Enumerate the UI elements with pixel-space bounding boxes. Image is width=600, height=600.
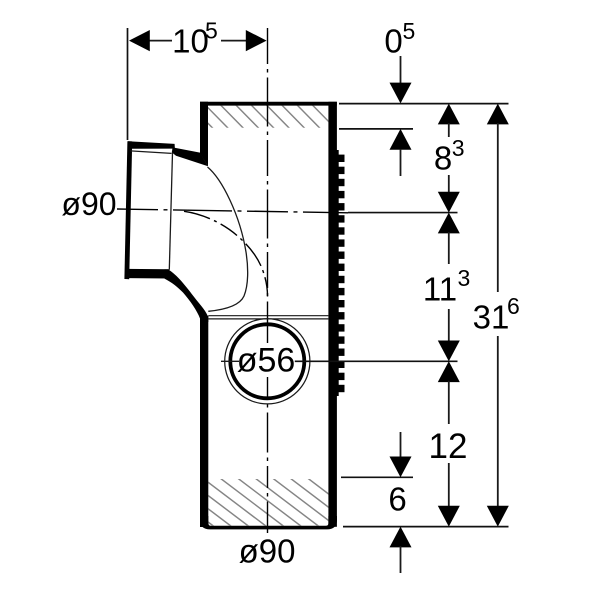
dim 11.3 upper shaft: [448, 232, 450, 264]
hatch top band: [190, 105, 335, 128]
dim 10.5 line right: [221, 40, 247, 42]
branch left cap: [124, 141, 132, 279]
pipe top edge: [200, 102, 337, 106]
dim 6 up arrow: [390, 527, 412, 548]
vertical centerline upper: [267, 28, 269, 343]
pipe right wall: [328, 102, 337, 527]
branch hub top edge: [128, 141, 175, 149]
pipe lower-left wall: [200, 316, 208, 527]
dim 12 down arrow: [438, 506, 460, 527]
dim 6 down arrow: [390, 457, 412, 478]
branch centerline bend arc: [184, 211, 268, 296]
svg-text:3: 3: [452, 135, 465, 161]
svg-text:ø56: ø56: [237, 342, 296, 380]
branch centerline: [117, 209, 348, 213]
circle center cross left arm: [221, 360, 239, 362]
branch bottom edge: [125, 269, 169, 279]
ribs on right wall: [339, 155, 345, 393]
dim 31.6 down arrow: [487, 506, 509, 527]
circle outer ring: [225, 319, 310, 404]
svg-text:ø90: ø90: [61, 186, 116, 222]
branch socket depth line: [169, 153, 172, 270]
dim 0.5 arrow down: [390, 83, 412, 104]
rib base strip: [337, 150, 339, 396]
svg-text:5: 5: [403, 18, 416, 44]
dim 11.3 up arrow: [438, 213, 460, 234]
svg-text:5: 5: [205, 18, 218, 44]
dim 0.5 shaft: [400, 56, 402, 85]
svg-text:6: 6: [507, 293, 520, 319]
extension line insertion top (y=128.9): [339, 128, 413, 130]
dim 12 lower shaft: [448, 463, 450, 508]
extension line left (x=127.5): [127, 28, 129, 140]
dim 10.5 arrow left: [129, 30, 150, 51]
branch inner top line: [130, 151, 171, 154]
extension branch centerline right: [348, 212, 458, 214]
circle d56: [230, 324, 304, 398]
extension line top (y=103.6): [339, 103, 509, 105]
small up arrow shaft: [400, 149, 402, 176]
svg-text:8: 8: [434, 140, 452, 177]
dim 11.3 down arrow: [438, 341, 460, 362]
socket shoulder line 2: [208, 318, 328, 320]
svg-text:0: 0: [384, 23, 402, 60]
dim 31.6 up arrow: [487, 104, 509, 125]
hatch bottom band: [150, 478, 372, 527]
dim 6 lower shaft: [400, 546, 402, 573]
branch bottom fillet into left wall: [165, 269, 209, 322]
pipe bottom edge: [200, 516, 337, 529]
extension circle centerline right: [295, 360, 458, 362]
svg-text:10: 10: [172, 23, 209, 60]
socket shoulder line 1: [208, 315, 328, 317]
dim 10.5 arrow right: [246, 30, 267, 51]
extension line bottom (y=526.6): [343, 526, 509, 528]
inner sweep curve: [208, 167, 248, 311]
wall flare into branch top (slant): [172, 147, 208, 166]
svg-text:31: 31: [473, 299, 510, 336]
dim 12 upper shaft: [448, 381, 450, 424]
vertical centerline lower: [267, 377, 269, 533]
svg-text:11: 11: [423, 271, 457, 308]
dim 12 up arrow: [438, 361, 460, 382]
dim 31.6 upper shaft: [497, 123, 499, 292]
dim 8.3 lower shaft: [448, 175, 450, 194]
svg-text:6: 6: [388, 481, 406, 518]
small up arrow to insertion line: [390, 129, 412, 150]
pipe upper-left wall: [200, 102, 208, 167]
dim 8.3 down arrow: [438, 192, 460, 213]
dim 8.3 up arrow: [438, 104, 460, 125]
dim 6 upper shaft: [400, 432, 402, 458]
extension line insertion bottom (y=477.3): [341, 476, 413, 478]
dim 8.3 upper shaft: [448, 123, 450, 137]
dim 10.5 line left: [148, 40, 172, 42]
svg-text:3: 3: [458, 265, 471, 291]
svg-text:ø90: ø90: [239, 533, 296, 570]
dim 31.6 lower shaft: [497, 336, 499, 508]
svg-text:12: 12: [429, 427, 468, 466]
dim 11.3 lower shaft: [448, 309, 450, 342]
